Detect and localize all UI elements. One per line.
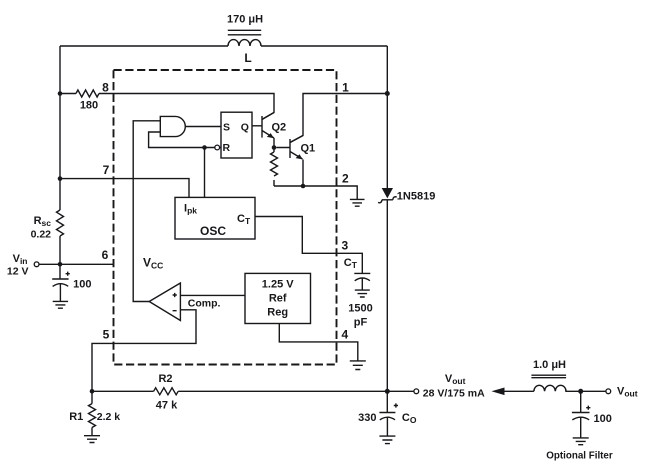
svg-text:S: S (223, 121, 230, 133)
svg-text:Ref: Ref (269, 293, 287, 305)
svg-text:170 μH: 170 μH (227, 13, 263, 25)
svg-text:4: 4 (341, 328, 348, 342)
svg-text:7: 7 (103, 163, 110, 177)
svg-text:L: L (244, 51, 251, 65)
svg-text:2: 2 (342, 172, 349, 186)
svg-text:R: R (223, 142, 231, 154)
svg-text:Q2: Q2 (272, 122, 287, 134)
svg-text:1.0 μH: 1.0 μH (533, 359, 566, 371)
svg-text:Reg: Reg (267, 307, 288, 319)
svg-text:2.2 k: 2.2 k (97, 411, 121, 423)
svg-text:pF: pF (354, 317, 368, 329)
svg-text:47 k: 47 k (156, 400, 178, 412)
svg-text:OSC: OSC (200, 224, 226, 238)
svg-text:100: 100 (73, 279, 91, 291)
svg-text:12 V: 12 V (7, 266, 29, 278)
svg-text:6: 6 (102, 248, 109, 262)
svg-text:Q1: Q1 (301, 142, 316, 154)
svg-text:R1: R1 (69, 411, 83, 423)
svg-text:Comp.: Comp. (188, 298, 221, 310)
svg-text:R2: R2 (158, 373, 172, 385)
svg-text:Q: Q (241, 121, 249, 133)
svg-text:0.22: 0.22 (31, 229, 52, 241)
svg-text:8: 8 (102, 80, 109, 94)
svg-text:1500: 1500 (348, 303, 372, 315)
svg-text:Optional Filter: Optional Filter (546, 450, 613, 461)
svg-text:5: 5 (103, 328, 110, 342)
svg-text:100: 100 (594, 413, 612, 425)
svg-text:1N5819: 1N5819 (397, 191, 436, 203)
svg-text:28 V/175 mA: 28 V/175 mA (423, 387, 485, 399)
svg-text:1: 1 (342, 80, 349, 94)
svg-text:330: 330 (358, 412, 376, 424)
svg-text:1.25 V: 1.25 V (262, 279, 294, 291)
svg-text:180: 180 (80, 100, 98, 112)
svg-text:3: 3 (341, 239, 348, 253)
